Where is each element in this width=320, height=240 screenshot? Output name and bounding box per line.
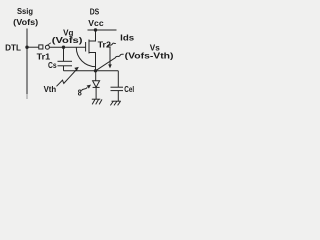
node Ids label — [120, 34, 135, 43]
leader arrow from Vth to arc — [57, 70, 77, 86]
junction dot source node — [94, 69, 97, 72]
wire bootstrap source line — [64, 70, 119, 72]
transistor Tr2 channel bar — [88, 40, 90, 54]
wire DTL to Tr1 — [27, 46, 39, 48]
svg-text:DS: DS — [90, 8, 100, 17]
svg-text:(Vofs-Vth): (Vofs-Vth) — [125, 52, 174, 61]
node Vs (Vofs-Vth) label — [125, 43, 174, 60]
svg-text:(Vofs): (Vofs) — [13, 18, 38, 27]
junction dot gate node — [62, 46, 65, 49]
junction dot Vcc rail — [94, 28, 97, 31]
node Ssig (Vofs) label on data line — [13, 7, 38, 27]
svg-text:DTL: DTL — [5, 43, 21, 52]
svg-text:(Vofs): (Vofs) — [52, 36, 83, 45]
leader from source node to Vs label — [96, 54, 124, 71]
node DS Vcc power label — [88, 8, 104, 28]
leader arrow from 8 to diode — [81, 87, 87, 90]
wire Vcc power rail — [88, 29, 117, 31]
node DTL label — [5, 43, 21, 52]
capacitor Cel — [111, 86, 124, 88]
wire diode to ground — [95, 87, 97, 99]
svg-text:Cel: Cel — [124, 85, 134, 94]
ground under EL diode — [92, 98, 101, 100]
junction dot on DTL — [25, 46, 28, 49]
diode EL element cathode bar — [93, 86, 100, 88]
svg-text:Ssig: Ssig — [17, 7, 33, 16]
Ids current arrow — [108, 43, 116, 47]
wire source line to Cel — [117, 71, 119, 87]
transistor Tr2 source lead — [89, 53, 96, 71]
capacitor Cs — [63, 47, 65, 61]
wire Tr1 to gate of Tr2 — [49, 46, 85, 48]
svg-text:Vcc: Vcc — [88, 19, 104, 28]
node Vg (Vofs) label — [52, 28, 83, 44]
transistor Tr2 drain lead — [89, 30, 96, 41]
svg-text:Vth: Vth — [44, 85, 57, 94]
node Vth label — [44, 85, 57, 94]
svg-text:Ids: Ids — [120, 34, 135, 43]
transistor Tr1 sampling switch — [39, 45, 43, 49]
diode EL element anode wire — [95, 71, 97, 81]
wire DTL vertical data line — [26, 29, 28, 95]
svg-text:Cs: Cs — [48, 61, 57, 70]
Vgs arc annotation gate to source — [76, 47, 95, 66]
transistor Tr2 drive MOSFET gate bar — [85, 42, 87, 52]
diode EL element triangle — [93, 81, 100, 87]
ground under Cel — [112, 100, 121, 102]
svg-text:Tr1: Tr1 — [37, 52, 51, 61]
node 8 reference label — [78, 88, 82, 97]
